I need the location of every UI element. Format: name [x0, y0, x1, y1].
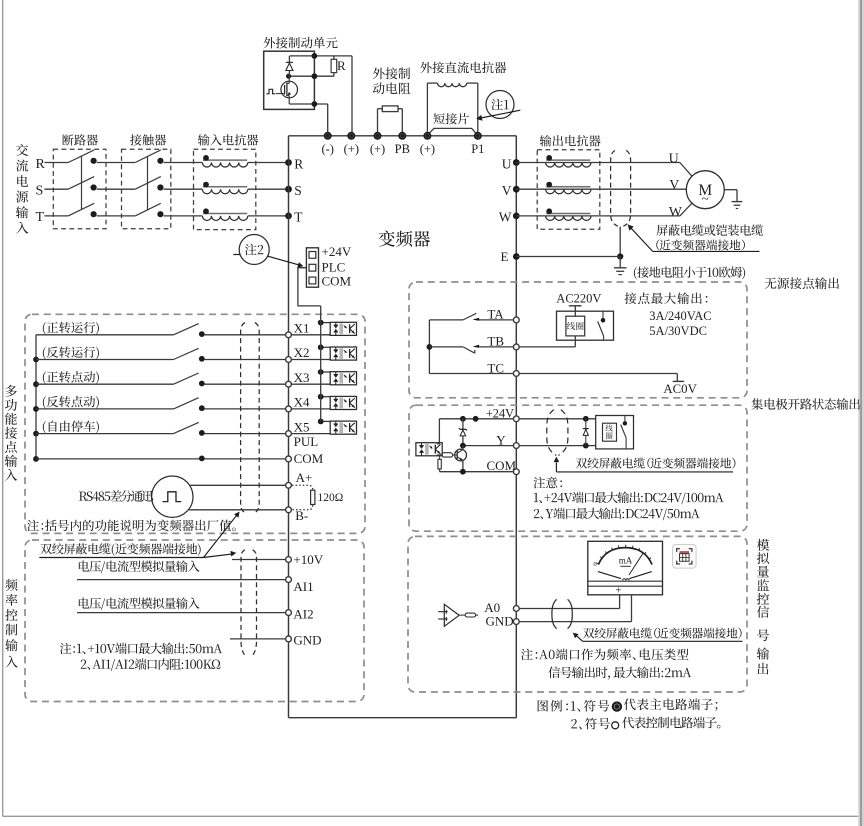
svg-text:TA: TA	[487, 307, 504, 322]
svg-text:Y: Y	[496, 432, 506, 447]
svg-text:COM: COM	[322, 274, 352, 289]
svg-text:GND: GND	[486, 614, 514, 629]
svg-text:AI1: AI1	[293, 579, 313, 594]
svg-text:AI2: AI2	[293, 606, 313, 621]
svg-text:(-): (-)	[321, 142, 334, 156]
svg-text:COM: COM	[294, 451, 324, 466]
svg-text:AC0V: AC0V	[663, 382, 697, 396]
svg-text:U: U	[669, 151, 679, 166]
svg-text:X5: X5	[294, 419, 310, 434]
svg-text:(+): (+)	[344, 142, 359, 156]
svg-text:T: T	[294, 210, 303, 225]
svg-text:W: W	[669, 205, 683, 220]
svg-text:120Ω: 120Ω	[318, 492, 344, 504]
svg-text:mA: mA	[619, 556, 633, 566]
svg-text:(+): (+)	[420, 142, 435, 156]
svg-text:E: E	[501, 249, 509, 264]
svg-text:V: V	[669, 178, 679, 193]
svg-text:R: R	[337, 58, 346, 73]
svg-text:PB: PB	[395, 142, 410, 156]
svg-text:~: ~	[702, 191, 709, 206]
svg-text:+24V: +24V	[322, 244, 352, 259]
svg-text:R: R	[36, 157, 46, 172]
svg-text:X1: X1	[294, 321, 310, 336]
svg-text:A+: A+	[296, 470, 313, 485]
svg-text:U: U	[502, 156, 512, 171]
svg-text:+10V: +10V	[293, 552, 323, 567]
svg-text:T: T	[36, 210, 45, 225]
svg-text:W: W	[499, 210, 512, 225]
svg-text:S: S	[294, 183, 302, 198]
svg-text:S: S	[36, 184, 44, 199]
svg-text:PUL: PUL	[294, 434, 319, 449]
svg-text:P1: P1	[471, 142, 484, 156]
svg-text:TB: TB	[487, 334, 504, 349]
svg-text:GND: GND	[293, 633, 321, 648]
svg-text:X4: X4	[294, 395, 310, 410]
svg-text:R: R	[294, 156, 303, 171]
svg-text:AC220V: AC220V	[556, 291, 601, 305]
svg-text:+: +	[616, 586, 622, 597]
svg-text:(+): (+)	[370, 142, 385, 156]
svg-text:COM: COM	[487, 458, 517, 473]
svg-text:0: 0	[593, 561, 596, 568]
svg-text:V: V	[502, 183, 512, 198]
svg-text:X2: X2	[294, 345, 310, 360]
svg-text:PLC: PLC	[322, 260, 346, 275]
svg-text:X3: X3	[294, 370, 310, 385]
svg-text:5A/30VDC: 5A/30VDC	[649, 324, 707, 338]
svg-text:+24V: +24V	[486, 406, 514, 420]
svg-text:3A/240VAC: 3A/240VAC	[649, 309, 711, 323]
svg-text:TC: TC	[487, 360, 504, 375]
